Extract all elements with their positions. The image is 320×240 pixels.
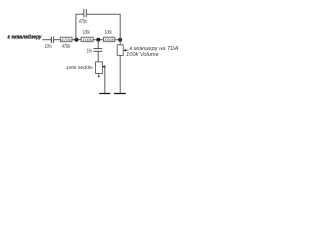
svg-text:100k: 100k [105, 30, 113, 36]
capacitor C2 470p [84, 9, 87, 17]
wire wiper to ground vertical [104, 67, 106, 93]
wire C3 to middle pot [97, 52, 99, 62]
resistor R2 100k [81, 37, 94, 42]
svg-text:100k: 100k [104, 38, 115, 42]
resistor R3 100k [104, 37, 116, 42]
svg-text:15n: 15n [87, 48, 93, 54]
svg-text:100k Middle: 100k Middle [66, 65, 94, 71]
node A junction dot [74, 38, 78, 42]
potentiometer middle pot body 100k Middle [96, 62, 103, 74]
wire R2 to R3 [93, 39, 103, 41]
wire R1 to R2 [72, 39, 81, 41]
middle pot wiper arrow [102, 65, 105, 68]
capacitor C1 100n [51, 37, 53, 44]
wire feedback loop left vertical [75, 14, 77, 40]
svg-text:100k: 100k [82, 38, 93, 42]
wire C1 to R1 [54, 39, 60, 41]
wire feedback loop top right segment [87, 13, 121, 15]
middle pot bottom stub [98, 73, 100, 76]
svg-text:100k Volume: 100k Volume [126, 52, 159, 58]
wire feedback loop top left segment [75, 13, 83, 15]
ground for volume pot [114, 93, 126, 95]
capacitor C3 15n [94, 49, 103, 52]
resistor R1 470k [60, 37, 72, 42]
svg-text:470k: 470k [61, 38, 72, 42]
wire feedback loop right vertical [119, 14, 121, 40]
ground for middle pot wiper [99, 93, 110, 95]
node B junction dot [96, 38, 100, 42]
middle pot bottom stub tip [98, 76, 100, 78]
volume pot wiper arrow [123, 49, 126, 52]
svg-text:100k: 100k [83, 30, 91, 36]
svg-text:к эквалайзеру: к эквалайзеру [8, 34, 43, 41]
wire node C down to volume pot [119, 40, 121, 45]
wire R3 to node C [115, 39, 120, 41]
wire input to C1 [42, 39, 51, 41]
wire volume pot to ground [119, 55, 121, 93]
svg-text:к микшеру на TDA: к микшеру на TDA [130, 46, 180, 52]
wire node B down to C3 [97, 40, 99, 49]
svg-text:100n: 100n [45, 44, 52, 50]
wire wiper output [126, 49, 129, 51]
svg-text:470k: 470k [62, 44, 71, 50]
potentiometer volume pot body 100k Volume [117, 45, 123, 56]
svg-text:470p: 470p [79, 19, 87, 25]
node C junction dot [118, 38, 122, 42]
